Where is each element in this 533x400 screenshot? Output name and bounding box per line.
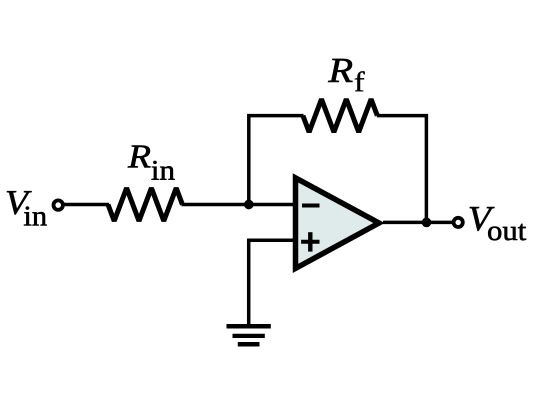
output terminal Vout [454, 218, 463, 227]
op-amp minus sign (inverting input) [302, 204, 320, 208]
label Rin-in [152, 161, 175, 180]
op-amp plus sign (non-inverting input) [301, 240, 319, 244]
ground symbol [227, 324, 271, 329]
wire Rin to op-amp inverting input [182, 203, 296, 207]
node junction at output [422, 218, 432, 228]
input terminal Vin [54, 200, 63, 209]
wire input terminal to Rin [64, 203, 109, 207]
wire feedback top right + right vertical [377, 116, 427, 223]
wire op-amp output [383, 221, 453, 225]
label Vout-V [470, 207, 495, 231]
wire non-inverting input to ground [249, 240, 296, 324]
label Rin-R [128, 146, 151, 168]
node junction at inverting input [244, 200, 254, 210]
resistor Rin [108, 188, 182, 221]
label Vin-V [7, 191, 32, 214]
label Rf-R [328, 59, 352, 82]
op-amp U1 triangle [296, 178, 380, 269]
wire feedback left vertical + top [249, 116, 304, 205]
resistor Rf [303, 99, 377, 132]
label Rf-f [355, 71, 365, 91]
label Vout-out [488, 224, 526, 240]
label Vin-in [24, 207, 47, 226]
